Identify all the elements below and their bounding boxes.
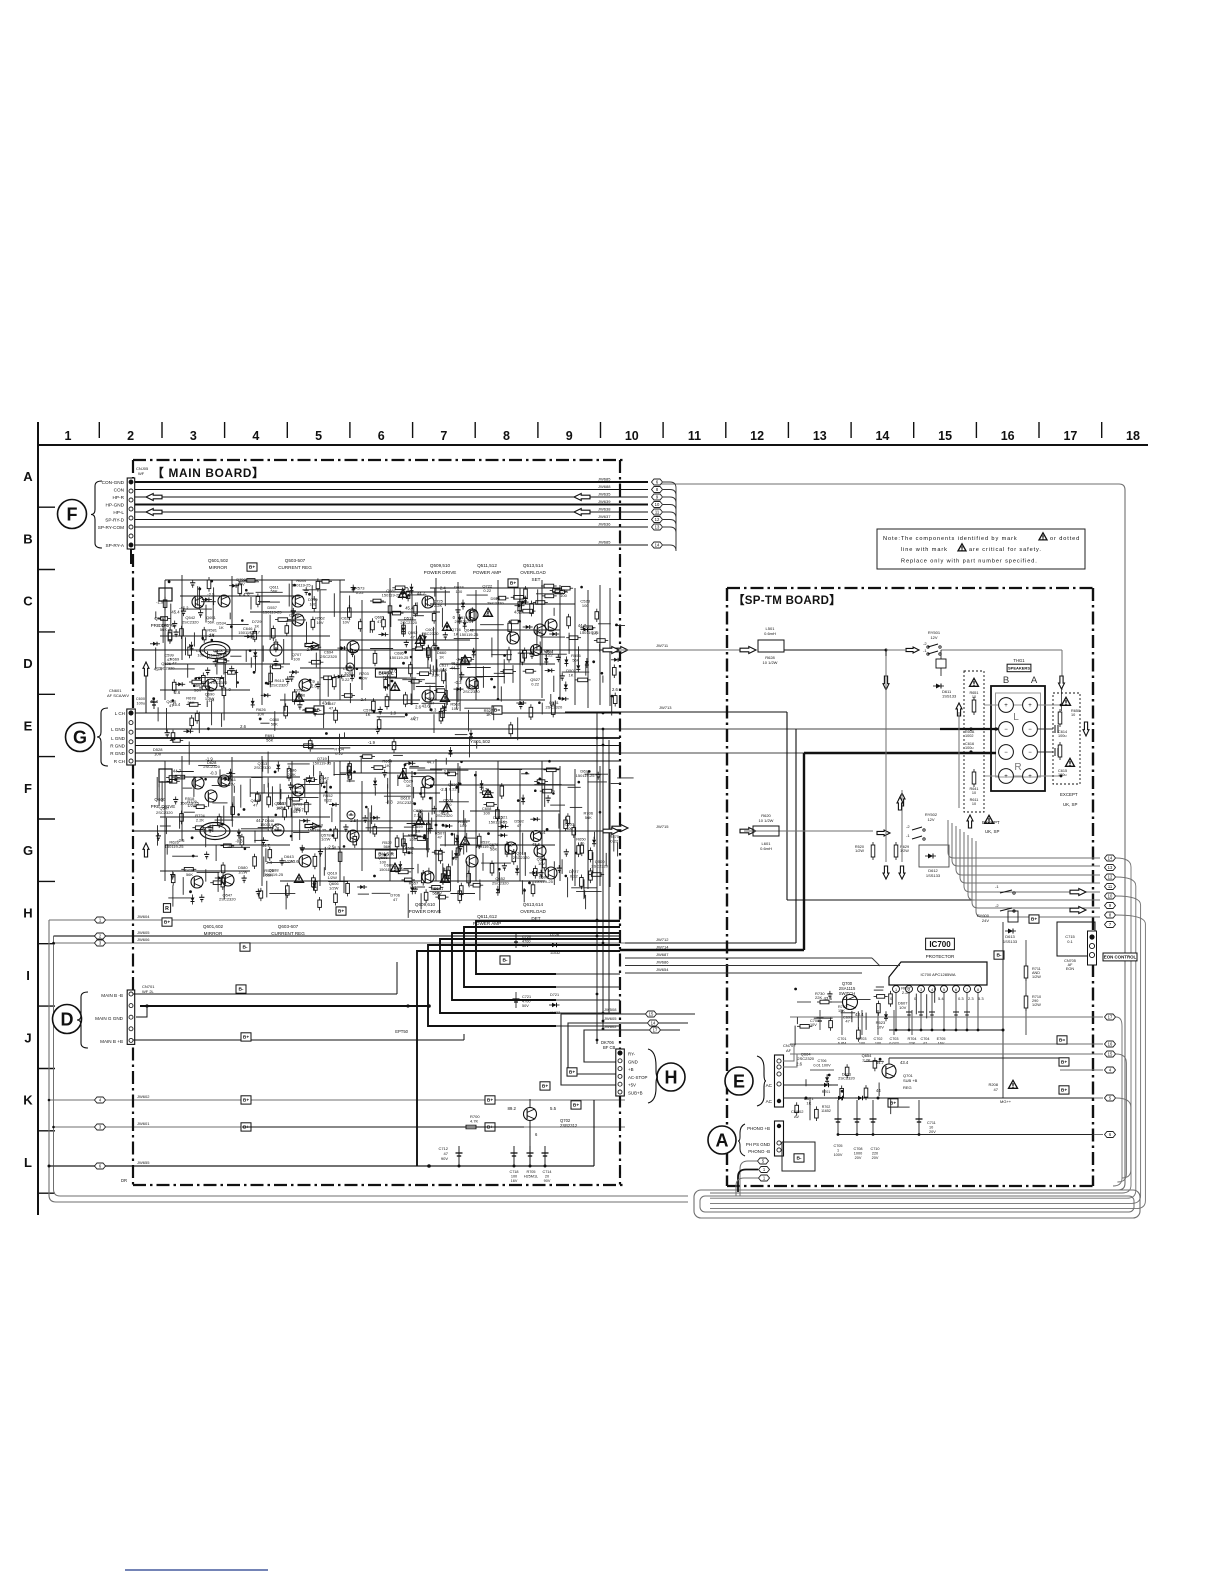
svg-text:11032: 11032 [550, 1011, 560, 1015]
svg-text:2.2K: 2.2K [414, 812, 423, 817]
svg-text:44.7: 44.7 [876, 1060, 885, 1065]
svg-text:B+: B+ [338, 909, 344, 915]
svg-text:-0.3: -0.3 [210, 770, 218, 775]
svg-text:43.6: 43.6 [532, 842, 541, 847]
svg-text:1/2W: 1/2W [187, 803, 197, 808]
svg-text:UK, SP: UK, SP [985, 829, 999, 834]
svg-text:-1.9: -1.9 [307, 679, 315, 684]
svg-text:1/2W: 1/2W [1032, 975, 1041, 979]
svg-text:L: L [24, 1155, 32, 1170]
svg-text:R705: R705 [526, 1170, 535, 1174]
svg-text:2SC2320: 2SC2320 [838, 1076, 855, 1081]
svg-text:11: 11 [1108, 884, 1113, 889]
svg-text:100: 100 [456, 589, 463, 594]
svg-text:B: B [1003, 675, 1009, 686]
svg-text:2SC2320: 2SC2320 [591, 863, 608, 868]
svg-text:12: 12 [655, 517, 660, 522]
svg-text:C721: C721 [522, 995, 531, 999]
svg-text:44.7: 44.7 [262, 843, 271, 848]
svg-text:JW685: JW685 [598, 540, 611, 545]
svg-text:2SC2320: 2SC2320 [400, 620, 417, 625]
svg-text:JW714: JW714 [656, 945, 669, 950]
svg-text:1K: 1K [439, 655, 444, 660]
svg-text:1SS133: 1SS133 [1003, 939, 1018, 944]
svg-text:1SS133: 1SS133 [926, 873, 941, 878]
svg-text:56K: 56K [320, 780, 327, 785]
svg-text:47: 47 [377, 619, 382, 624]
svg-text:+5V: +5V [628, 1083, 636, 1088]
svg-text:C708: C708 [853, 1147, 862, 1151]
svg-text:YS01,502: YS01,502 [470, 739, 491, 744]
svg-text:AC: AC [766, 1083, 773, 1088]
svg-text:15: 15 [938, 429, 952, 443]
svg-text:E705: E705 [937, 1037, 946, 1041]
svg-text:G: G [73, 728, 87, 748]
svg-text:−: − [1004, 727, 1008, 733]
svg-text:2SC2320: 2SC2320 [513, 855, 530, 860]
svg-text:R: R [165, 906, 169, 912]
svg-text:10: 10 [929, 1126, 933, 1130]
svg-text:JW711: JW711 [656, 643, 669, 648]
svg-text:1002: 1002 [965, 734, 973, 738]
svg-text:JW654: JW654 [656, 967, 669, 972]
svg-text:10: 10 [972, 695, 976, 699]
svg-text:100u: 100u [137, 702, 145, 706]
svg-text:1K: 1K [569, 673, 574, 678]
svg-text:B=: B= [494, 708, 500, 714]
svg-text:UK, SP: UK, SP [1063, 802, 1077, 807]
svg-text:47: 47 [393, 897, 398, 902]
svg-text:150119-25: 150119-25 [576, 773, 596, 778]
svg-text:1K: 1K [366, 712, 371, 717]
svg-text:2.6: 2.6 [240, 724, 246, 729]
svg-text:43.4: 43.4 [900, 1060, 909, 1065]
svg-text:56K: 56K [383, 844, 390, 849]
svg-text:DR: DR [121, 1178, 127, 1183]
svg-text:A: A [716, 1131, 729, 1151]
svg-text:B+: B+ [569, 1070, 575, 1076]
svg-text:16: 16 [1001, 429, 1015, 443]
svg-text:Q600: Q600 [154, 797, 166, 802]
svg-text:SUB +B: SUB +B [903, 1078, 918, 1083]
svg-text:47: 47 [329, 705, 334, 710]
svg-text:12V: 12V [930, 635, 937, 640]
svg-text:47: 47 [172, 661, 177, 666]
svg-text:B-: B- [316, 708, 321, 714]
svg-text:Q611,612: Q611,612 [477, 914, 497, 919]
svg-text:A: A [1031, 675, 1038, 686]
svg-text:100: 100 [445, 802, 452, 807]
svg-text:I: I [26, 968, 30, 983]
svg-text:JW687: JW687 [656, 952, 669, 957]
svg-text:C714: C714 [542, 1170, 551, 1174]
svg-text:【 MAIN BOARD】: 【 MAIN BOARD】 [152, 466, 265, 480]
svg-text:JW605: JW605 [137, 930, 150, 935]
svg-text:L GND: L GND [111, 736, 126, 741]
svg-text:B+: B+ [243, 1125, 249, 1131]
svg-text:45.4: 45.4 [150, 699, 159, 704]
svg-text:4.7K: 4.7K [470, 1119, 479, 1124]
svg-text:J: J [24, 1030, 31, 1045]
svg-text:EXCEPT: EXCEPT [982, 820, 1000, 825]
svg-text:0.22: 0.22 [531, 682, 540, 687]
svg-text:2SC2320: 2SC2320 [492, 881, 509, 886]
svg-text:−: − [1028, 727, 1032, 733]
svg-text:JW686: JW686 [656, 960, 669, 965]
svg-text:0.22: 0.22 [335, 751, 344, 756]
svg-text:1K: 1K [254, 624, 259, 629]
svg-text:+B: +B [628, 1067, 634, 1072]
svg-text:Q613,614: Q613,614 [523, 902, 544, 907]
svg-text:2SC2320: 2SC2320 [463, 689, 480, 694]
svg-text:IC700 APC1285WA: IC700 APC1285WA [921, 972, 956, 977]
svg-text:47: 47 [410, 634, 415, 639]
svg-text:3: 3 [190, 429, 197, 443]
svg-text:B+: B+ [487, 1098, 493, 1104]
svg-text:-1.9: -1.9 [533, 629, 541, 634]
svg-text:47: 47 [517, 823, 522, 828]
svg-text:3: 3 [920, 988, 922, 992]
svg-text:R CH: R CH [114, 759, 125, 764]
svg-text:CURRENT REG: CURRENT REG [271, 931, 305, 936]
svg-text:CURRENT REG: CURRENT REG [278, 565, 312, 570]
svg-text:JW715: JW715 [656, 824, 669, 829]
svg-text:150119-25: 150119-25 [312, 761, 332, 766]
svg-text:56K: 56K [271, 589, 278, 594]
svg-text:-2.5: -2.5 [349, 818, 357, 823]
svg-text:10: 10 [655, 502, 660, 507]
svg-text:B+: B+ [487, 1125, 493, 1131]
svg-text:-2.5: -2.5 [440, 787, 448, 792]
svg-text:2SC2320: 2SC2320 [203, 764, 220, 769]
svg-text:0.22: 0.22 [324, 797, 333, 802]
svg-text:B+: B+ [1031, 917, 1037, 923]
svg-text:2SC2320: 2SC2320 [320, 654, 337, 659]
svg-text:100: 100 [582, 603, 589, 608]
svg-text:0.1: 0.1 [1067, 939, 1073, 944]
svg-text:10V: 10V [228, 781, 235, 786]
svg-text:JW638: JW638 [598, 507, 611, 512]
svg-text:150119-25: 150119-25 [260, 822, 280, 827]
svg-text:R GND: R GND [110, 744, 125, 749]
svg-text:MAIN G GND: MAIN G GND [95, 1016, 124, 1021]
svg-text:47: 47 [994, 1087, 999, 1092]
svg-text:150119-25: 150119-25 [459, 632, 479, 637]
svg-text:43.4: 43.4 [855, 1012, 864, 1017]
svg-text:−: − [1028, 750, 1032, 756]
svg-text:7: 7 [440, 429, 447, 443]
svg-text:20: 20 [545, 1175, 549, 1179]
svg-text:POWER DRIVE: POWER DRIVE [424, 570, 457, 575]
svg-text:100: 100 [293, 657, 300, 662]
svg-text:2.2K: 2.2K [862, 1057, 871, 1062]
svg-text:HP-GND: HP-GND [106, 503, 125, 508]
svg-text:10V: 10V [452, 706, 459, 711]
svg-text:B=: B= [1059, 1038, 1065, 1044]
svg-text:0.6mH: 0.6mH [760, 846, 772, 851]
svg-text:【SP-TM BOARD】: 【SP-TM BOARD】 [733, 594, 841, 607]
svg-text:JW602: JW602 [604, 1024, 617, 1029]
svg-text:12V: 12V [927, 817, 934, 822]
svg-text:+: + [1004, 774, 1008, 780]
svg-text:AF: AF [786, 1048, 792, 1053]
svg-text:4: 4 [931, 988, 933, 992]
svg-text:-0.3: -0.3 [235, 839, 243, 844]
svg-text:20V: 20V [872, 1156, 879, 1160]
svg-text:B+: B+ [243, 1035, 249, 1041]
svg-text:R GND: R GND [110, 751, 125, 756]
svg-text:F: F [24, 781, 32, 796]
svg-text:Q603-607: Q603-607 [278, 924, 299, 929]
svg-text:47: 47 [845, 1019, 850, 1024]
svg-text:5: 5 [315, 429, 322, 443]
svg-text:5: 5 [943, 988, 945, 992]
svg-text:0.22: 0.22 [293, 789, 302, 794]
svg-text:REG: REG [903, 1085, 912, 1090]
svg-text:56K: 56K [490, 847, 497, 852]
svg-text:1/2W: 1/2W [321, 837, 331, 842]
svg-text:5.3: 5.3 [978, 996, 984, 1001]
svg-text:Q501,502: Q501,502 [208, 558, 229, 563]
svg-text:B-: B- [502, 958, 507, 964]
svg-text:C720: C720 [522, 935, 531, 939]
svg-text:+: + [1028, 703, 1032, 709]
svg-text:100: 100 [483, 810, 490, 815]
svg-text:RY-: RY- [628, 1052, 636, 1057]
svg-text:Note:The components identified: Note:The components identified by mark [883, 536, 1018, 542]
svg-text:JW604: JW604 [137, 914, 150, 919]
svg-text:EXCEPT: EXCEPT [1060, 792, 1078, 797]
svg-text:6: 6 [955, 988, 957, 992]
svg-text:10V: 10V [410, 885, 417, 890]
svg-text:16V: 16V [511, 1179, 518, 1183]
svg-text:+: + [1028, 774, 1032, 780]
svg-text:56K: 56K [266, 738, 273, 743]
svg-text:2.2K: 2.2K [196, 817, 205, 822]
svg-text:OVERLOAD: OVERLOAD [520, 909, 546, 914]
svg-text:D: D [61, 1010, 74, 1030]
svg-text:50V: 50V [522, 1004, 529, 1008]
svg-text:2SC2320: 2SC2320 [182, 619, 199, 624]
svg-text:B+: B+ [243, 1098, 249, 1104]
svg-text:0.22: 0.22 [342, 677, 351, 682]
svg-text:150119-25: 150119-25 [208, 652, 228, 657]
svg-text:POWER DRIVE: POWER DRIVE [409, 909, 442, 914]
svg-text:C706: C706 [817, 1059, 826, 1063]
svg-text:R704: R704 [907, 1037, 916, 1041]
svg-text:K: K [23, 1093, 33, 1108]
svg-text:43.6: 43.6 [389, 669, 398, 674]
svg-text:1: 1 [895, 988, 897, 992]
svg-text:8: 8 [977, 988, 979, 992]
svg-text:100: 100 [511, 1175, 517, 1179]
svg-text:15: 15 [649, 1012, 654, 1017]
svg-text:10V: 10V [899, 1005, 906, 1010]
svg-text:JW601: JW601 [137, 1121, 150, 1126]
svg-text:14: 14 [651, 1021, 656, 1026]
svg-text:10V: 10V [154, 752, 161, 757]
svg-text:2.2K: 2.2K [434, 603, 443, 608]
svg-text:JW636: JW636 [598, 522, 611, 527]
svg-text:AF SCA/WV: AF SCA/WV [107, 693, 129, 698]
svg-text:0.22: 0.22 [356, 590, 365, 595]
svg-text:11652: 11652 [821, 1109, 831, 1113]
svg-text:56K: 56K [266, 873, 273, 878]
svg-text:JW606: JW606 [137, 937, 150, 942]
svg-text:12: 12 [750, 429, 764, 443]
svg-text:1K: 1K [500, 819, 505, 824]
svg-text:2SC2320: 2SC2320 [219, 897, 236, 902]
svg-text:2SC2320: 2SC2320 [797, 1056, 814, 1061]
svg-text:44.7: 44.7 [256, 818, 265, 823]
svg-text:Replace only with part number: Replace only with part number specified. [901, 559, 1038, 565]
svg-text:11: 11 [688, 429, 701, 443]
svg-text:JW639: JW639 [598, 499, 611, 504]
svg-text:100V: 100V [834, 1153, 843, 1157]
svg-text:L CH: L CH [115, 711, 125, 716]
svg-text:JW605: JW605 [604, 1016, 617, 1021]
svg-text:SET: SET [532, 577, 541, 582]
svg-text:−: − [1004, 750, 1008, 756]
svg-text:JW637: JW637 [598, 514, 611, 519]
svg-text:150119-25: 150119-25 [165, 844, 185, 849]
svg-text:150119-25: 150119-25 [534, 879, 554, 884]
svg-text:10V: 10V [409, 837, 416, 842]
svg-text:R: R [1014, 762, 1021, 773]
svg-text:150119-25: 150119-25 [390, 655, 410, 660]
svg-text:B+: B+ [1061, 1088, 1067, 1094]
svg-text:2.4: 2.4 [361, 697, 367, 702]
svg-text:line with mark: line with mark [901, 547, 948, 553]
svg-text:150119-25: 150119-25 [292, 583, 312, 588]
svg-text:2SC2320: 2SC2320 [271, 682, 288, 687]
svg-text:1K: 1K [486, 712, 491, 717]
svg-text:150119-25: 150119-25 [382, 592, 402, 597]
svg-text:Q601,602: Q601,602 [203, 924, 224, 929]
svg-text:10: 10 [625, 429, 639, 443]
svg-text:A: A [23, 469, 33, 484]
svg-text:1/2W: 1/2W [1032, 1003, 1041, 1007]
svg-text:Q503-507: Q503-507 [285, 558, 306, 563]
svg-text:MG++: MG++ [1000, 1099, 1012, 1104]
svg-text:2: 2 [127, 429, 134, 443]
svg-text:-2.5: -2.5 [327, 844, 335, 849]
svg-text:10 1/2W: 10 1/2W [759, 818, 774, 823]
svg-text:2SC2320: 2SC2320 [436, 813, 453, 818]
svg-text:2SC2320: 2SC2320 [158, 665, 175, 670]
svg-text:100u: 100u [965, 746, 973, 750]
svg-text:MIRROR: MIRROR [209, 565, 228, 570]
svg-text:JW602: JW602 [137, 1094, 150, 1099]
svg-text:10V: 10V [257, 711, 264, 716]
svg-text:or dotted: or dotted [1050, 536, 1080, 542]
svg-text:2SC2320: 2SC2320 [455, 619, 472, 624]
svg-text:45.4: 45.4 [172, 702, 181, 707]
svg-text:10V: 10V [342, 620, 349, 625]
svg-text:13: 13 [813, 429, 827, 443]
svg-text:7: 7 [966, 988, 968, 992]
svg-text:56K: 56K [585, 815, 592, 820]
svg-text:90V: 90V [441, 1156, 448, 1161]
svg-text:SP-RY-D: SP-RY-D [105, 518, 124, 523]
svg-text:1: 1 [65, 429, 72, 443]
svg-text:B+: B+ [542, 1084, 548, 1090]
svg-text:1/2W: 1/2W [328, 875, 338, 880]
svg-text:1/2W: 1/2W [238, 870, 248, 875]
svg-text:JW688: JW688 [598, 484, 611, 489]
svg-text:Q513,514: Q513,514 [523, 563, 544, 568]
svg-text:56K: 56K [187, 700, 194, 705]
svg-text:JW655: JW655 [137, 1160, 150, 1165]
svg-text:43.6: 43.6 [514, 610, 523, 615]
svg-text:Q511,512: Q511,512 [477, 563, 497, 568]
svg-text:B+: B+ [249, 565, 255, 571]
svg-text:100: 100 [460, 823, 467, 828]
svg-text:10: 10 [972, 802, 976, 806]
svg-text:2.6: 2.6 [592, 631, 598, 636]
svg-text:JW713: JW713 [659, 705, 672, 710]
svg-text:100: 100 [197, 653, 204, 658]
svg-text:15: 15 [1108, 1052, 1113, 1057]
svg-text:89.2: 89.2 [507, 1106, 516, 1111]
svg-text:EON CONTROL: EON CONTROL [1104, 955, 1137, 960]
svg-text:POWER AMP: POWER AMP [473, 570, 501, 575]
svg-text:10V: 10V [435, 890, 442, 895]
svg-text:100: 100 [566, 826, 573, 831]
svg-text:2.4: 2.4 [440, 586, 446, 591]
svg-text:+: + [1004, 703, 1008, 709]
svg-text:220: 220 [872, 1152, 878, 1156]
svg-text:10V: 10V [538, 861, 545, 866]
svg-text:20V: 20V [855, 1156, 862, 1160]
svg-text:0.22: 0.22 [483, 588, 492, 593]
svg-text:1K: 1K [219, 625, 224, 630]
svg-text:2.4: 2.4 [240, 592, 246, 597]
svg-text:2.6: 2.6 [612, 687, 618, 692]
svg-text:17: 17 [1063, 429, 1077, 443]
svg-text:150119-25: 150119-25 [307, 828, 327, 833]
svg-text:H: H [665, 1068, 678, 1088]
svg-text:44.7: 44.7 [315, 823, 324, 828]
svg-text:B+: B+ [573, 1103, 579, 1109]
svg-text:CON: CON [114, 488, 124, 493]
svg-text:B+: B+ [510, 581, 516, 587]
svg-text:56K: 56K [440, 667, 447, 672]
svg-text:0.3: 0.3 [958, 996, 964, 1001]
svg-text:Q609,610: Q609,610 [415, 902, 436, 907]
svg-text:2.3: 2.3 [968, 996, 974, 1001]
svg-text:B-: B- [996, 953, 1001, 959]
svg-text:-0.3: -0.3 [485, 612, 493, 617]
svg-text:SP-RY-COM: SP-RY-COM [98, 525, 124, 530]
svg-text:100: 100 [276, 805, 283, 810]
svg-text:50V: 50V [522, 944, 529, 948]
svg-text:150119-25: 150119-25 [263, 609, 283, 614]
svg-text:E: E [24, 719, 33, 734]
svg-text:1K: 1K [298, 697, 303, 702]
svg-text:2SB2312: 2SB2312 [560, 1123, 578, 1128]
svg-text:C600: C600 [136, 697, 145, 701]
svg-text:JW635: JW635 [598, 492, 611, 497]
svg-text:B+: B+ [1061, 1060, 1067, 1066]
svg-text:R701: R701 [822, 1090, 831, 1094]
svg-text:F: F [67, 505, 78, 525]
svg-text:AC-STOP: AC-STOP [628, 1075, 648, 1080]
svg-text:9: 9 [566, 429, 573, 443]
svg-text:90V: 90V [544, 1179, 551, 1183]
svg-text:SP-RY-A: SP-RY-A [106, 543, 125, 548]
svg-text:11: 11 [655, 510, 660, 515]
